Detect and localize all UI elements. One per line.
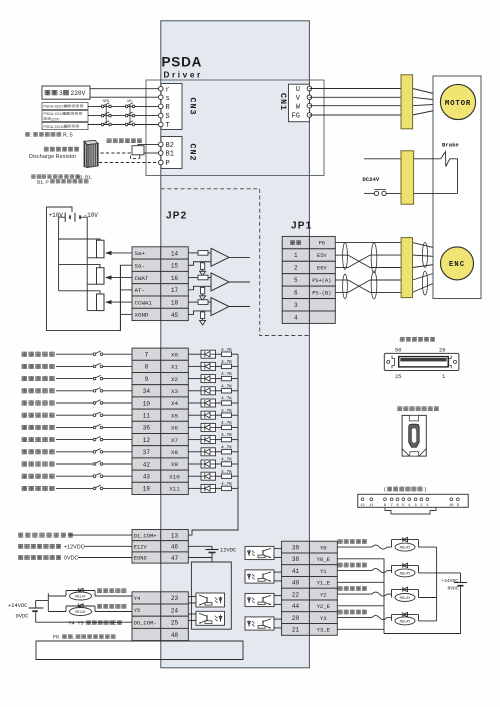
svg-text:E0V: E0V — [317, 266, 327, 272]
encoder circle ENC — [441, 247, 474, 280]
wire phase r — [90, 88, 159, 90]
svg-text:50: 50 — [395, 348, 401, 354]
svg-text:PSDA: PSDA — [162, 55, 203, 70]
wire op-amp U3 plus input — [188, 301, 198, 303]
label digital input X4 — [22, 401, 54, 405]
wire battery minus to E bus — [384, 586, 461, 634]
svg-text:JP1: JP1 — [291, 221, 312, 232]
relay output Y0 right — [391, 540, 393, 548]
wire output Y0 with break — [337, 546, 372, 548]
optocoupler output Y3 — [245, 617, 274, 630]
wire B1 to internal resistor — [144, 152, 159, 154]
svg-text:8: 8 — [145, 364, 149, 371]
optocoupler input X9 — [188, 463, 201, 465]
svg-text:X4: X4 — [171, 400, 178, 407]
label digital output Y2 — [338, 586, 367, 590]
svg-text:+10V: +10V — [49, 212, 64, 219]
svg-text:E5V: E5V — [317, 253, 327, 259]
brake switch zigzag — [441, 152, 458, 194]
input common bus wire — [188, 354, 238, 535]
wire 4.7K X8 to bus — [232, 451, 239, 453]
svg-text:XGND: XGND — [135, 312, 149, 319]
pin r of CN3 — [159, 86, 164, 91]
bias resistor op-amp U3 — [201, 312, 205, 319]
svg-text:Sa+: Sa+ — [135, 250, 146, 257]
wire input X2 to terminal — [103, 378, 132, 380]
switch digital input X1 — [56, 365, 93, 367]
white connector area box — [146, 80, 324, 176]
svg-text:MC: MC — [127, 99, 133, 103]
wire B2 to internal resistor — [138, 144, 159, 145]
svg-text:18: 18 — [171, 299, 179, 306]
svg-text:4: 4 — [294, 314, 298, 321]
switch digital input X6 — [56, 426, 93, 428]
svg-text:DC24V: DC24V — [362, 176, 379, 183]
svg-text:43: 43 — [143, 474, 151, 481]
resistor 4.7K input X0 — [216, 353, 222, 355]
svg-text:RELAY: RELAY — [400, 571, 412, 575]
label digital input X5 — [22, 413, 54, 417]
svg-text:4.7K: 4.7K — [221, 359, 232, 365]
svg-text:0VDC: 0VDC — [448, 585, 459, 591]
svg-text:40: 40 — [292, 580, 300, 587]
wire op-amp U2 plus input — [188, 277, 198, 279]
svg-text:4.7K: 4.7K — [221, 457, 232, 463]
svg-text:45: 45 — [171, 312, 179, 319]
terminal table JP2 — [132, 247, 188, 321]
wire input X7 to terminal — [103, 439, 132, 441]
label digital output Y0 — [338, 539, 367, 543]
wire op-amp U1 output — [229, 256, 250, 258]
label waike shell row — [290, 241, 300, 245]
label digital output Y1 — [338, 563, 367, 567]
wire twisted pair E5V/E0V — [335, 254, 348, 256]
svg-text:47: 47 — [171, 555, 179, 562]
input resistor op-amp U2 — [198, 275, 208, 280]
svg-text:3: 3 — [59, 90, 63, 97]
resistor 4.7K input X8 — [216, 451, 222, 453]
output relay supply bus — [436, 547, 438, 621]
svg-text:B2, B1,: B2, B1, — [77, 175, 93, 181]
svg-text:RELAY: RELAY — [75, 610, 87, 614]
wire potentiometer 3 bottom — [87, 310, 96, 312]
relay output Y5 — [48, 611, 66, 613]
svg-text:34: 34 — [143, 388, 151, 395]
svg-text:17: 17 — [171, 287, 179, 294]
input resistor op-amp U1 — [198, 251, 208, 256]
svg-text:10: 10 — [449, 504, 454, 508]
svg-text:220V: 220V — [51, 117, 60, 121]
label digital input X10 — [22, 474, 54, 478]
svg-text:23: 23 — [171, 595, 179, 602]
relay output Y1 right — [391, 565, 393, 573]
svg-text:6: 6 — [294, 290, 298, 297]
optocoupler output Y0 — [245, 546, 274, 559]
svg-text:AT-: AT- — [135, 287, 145, 294]
svg-text:RELAY: RELAY — [75, 594, 87, 598]
switch digital input X4 — [56, 402, 93, 404]
svg-text:Y3_E: Y3_E — [317, 627, 331, 634]
svg-text:T: T — [166, 122, 170, 130]
wiper arrow potentiometer 2 — [110, 277, 132, 279]
potentiometer R3 — [97, 294, 105, 311]
optocoupler output Y2 — [245, 593, 274, 606]
label driver internal supply +12VDC — [18, 544, 60, 548]
pin R of CN3 — [159, 104, 164, 109]
potentiometer R2 — [97, 268, 105, 285]
optocoupler output Y1 — [245, 570, 274, 583]
wire to potentiometer 1 top — [59, 239, 100, 240]
svg-text:5: 5 — [294, 277, 298, 284]
wire battery plus to relay rail — [36, 601, 49, 608]
svg-text:Driver: Driver — [164, 71, 203, 80]
relay output Y2 right — [391, 589, 393, 597]
optocoupler input X5 — [188, 414, 201, 416]
wire U to motor — [309, 88, 412, 90]
svg-text:X7: X7 — [171, 437, 178, 444]
svg-text:4.7K: 4.7K — [221, 420, 232, 426]
optocoupler input X10 — [188, 475, 201, 477]
wire phase R — [88, 105, 159, 107]
wire input X10 to terminal — [103, 475, 132, 477]
optocoupler output Y4 — [188, 596, 196, 598]
svg-text:42: 42 — [143, 461, 151, 468]
wire JP1 FG to encoder connector — [335, 242, 401, 244]
op-amp U1 — [211, 248, 229, 266]
capacitor 12VDC — [188, 545, 212, 547]
wiper arrow potentiometer 3 — [110, 301, 132, 303]
encoder plug center key — [409, 424, 420, 447]
svg-text:Y2_E: Y2_E — [317, 603, 331, 610]
svg-text:12: 12 — [360, 504, 365, 508]
wire input X0 to terminal — [103, 353, 132, 355]
svg-text:Y4: Y4 — [134, 596, 140, 602]
svg-text:7: 7 — [145, 352, 149, 359]
wire phase s — [90, 96, 159, 98]
motor circle MOTOR — [440, 84, 475, 119]
svg-text::: : — [31, 132, 32, 138]
wire potentiometer 1 bottom — [87, 257, 96, 259]
wiper arrow potentiometer 1 — [110, 252, 132, 254]
twist lens marks column 3 — [422, 243, 427, 268]
wire input X1 to terminal — [103, 365, 132, 367]
svg-text:Y0: Y0 — [320, 544, 327, 551]
wire 4.7K X2 to bus — [232, 378, 239, 380]
svg-text:9: 9 — [145, 376, 149, 383]
svg-text:-10V: -10V — [84, 212, 99, 219]
switch digital input X3 — [56, 390, 93, 392]
svg-text:(: ( — [384, 487, 386, 493]
label digital input X7 — [22, 437, 54, 441]
dashed wire external resistor to B1 — [101, 153, 140, 158]
svg-text:RELAY: RELAY — [400, 619, 412, 623]
wire analog ground bus stubs — [120, 264, 132, 266]
model note box 2 — [42, 110, 88, 121]
svg-text:4.7K: 4.7K — [221, 383, 232, 389]
label control cable plug — [400, 337, 435, 341]
svg-text:0VDC: 0VDC — [64, 556, 78, 562]
label external discharge resistor — [44, 147, 79, 151]
svg-text:+24VDC: +24VDC — [8, 603, 27, 609]
note single phase use R S — [25, 132, 29, 136]
svg-text:Y1_E: Y1_E — [317, 580, 331, 587]
resistor 4.7K input X11 — [216, 487, 222, 489]
svg-text:X0: X0 — [171, 351, 178, 358]
dashed section divider — [161, 189, 310, 336]
wire 4.7K X1 to bus — [232, 365, 239, 367]
wire output Y3 with break — [337, 617, 372, 619]
resistor 4.7K input X2 — [216, 378, 222, 380]
svg-text:4.7K: 4.7K — [221, 396, 232, 402]
svg-text:20: 20 — [292, 615, 300, 622]
svg-text:22: 22 — [292, 591, 300, 598]
svg-text:CWAT: CWAT — [135, 275, 149, 282]
svg-text:3: 3 — [294, 302, 298, 309]
PSDA driver main block — [161, 21, 310, 668]
relay output Y4 — [48, 595, 66, 597]
ground arrow op-amp U3 — [202, 318, 204, 320]
external discharge resistor (hatched) — [84, 140, 98, 167]
wire encoder cable to ENC — [413, 243, 451, 252]
switch digital input X11 — [56, 487, 93, 489]
switch digital input X0 — [56, 353, 93, 355]
svg-text:ENC: ENC — [449, 261, 465, 269]
optocoupler output Y5 — [188, 613, 196, 615]
svg-text:X10: X10 — [169, 473, 180, 480]
wire battery minus to DO_COM- — [36, 611, 132, 622]
svg-text:CCWA1: CCWA1 — [135, 299, 153, 306]
encoder connector (yellow) — [401, 238, 412, 298]
svg-text:Y2: Y2 — [320, 591, 327, 598]
optocoupler input X3 — [188, 390, 201, 392]
wire V to motor — [309, 96, 412, 98]
svg-text:39: 39 — [292, 544, 300, 551]
wire input X5 to terminal — [103, 414, 132, 416]
wire output Y2 with break — [337, 593, 372, 595]
wire 4.7K X6 to bus — [232, 426, 239, 428]
wire twisted pair PS+/PS- — [335, 279, 348, 281]
optocoupler input X6 — [188, 426, 201, 428]
op-amp U2 — [211, 273, 229, 291]
svg-text:DO_COM-: DO_COM- — [134, 620, 157, 626]
bias resistor op-amp U1 — [201, 263, 205, 270]
svg-text:1: 1 — [442, 374, 445, 380]
svg-text:EGND: EGND — [134, 556, 147, 562]
connector CN2 box — [161, 137, 182, 169]
wire W to motor — [309, 105, 412, 107]
svg-text:E12V: E12V — [134, 545, 148, 551]
wire op-amp U3 output — [229, 306, 250, 308]
motor power connector (yellow) — [401, 75, 413, 129]
optocoupler input X4 — [188, 402, 201, 404]
wire 4.7K X4 to bus — [232, 402, 239, 404]
svg-text:11: 11 — [143, 413, 151, 420]
svg-text:Discharge Resistor: Discharge Resistor — [29, 154, 76, 160]
ground arrow op-amp U1 — [202, 269, 204, 271]
svg-text:14: 14 — [171, 250, 179, 257]
svg-text:220V: 220V — [71, 90, 86, 97]
label digital output Y4 — [97, 589, 126, 593]
pin P of CN2 — [159, 160, 164, 165]
svg-text:15: 15 — [171, 263, 179, 270]
svg-text:X11: X11 — [169, 486, 180, 493]
svg-text:4.7K: 4.7K — [221, 481, 232, 487]
svg-text:MOTOR: MOTOR — [445, 100, 471, 108]
connector CN1 box — [289, 84, 310, 122]
svg-text:Y5: Y5 — [134, 608, 140, 614]
pin B2 of CN2 — [159, 142, 164, 147]
wire battery right rail — [80, 217, 87, 310]
svg-text:B2: B2 — [166, 142, 174, 150]
label digital output Y5 — [97, 604, 126, 608]
svg-text:19: 19 — [143, 486, 151, 493]
svg-text:Sa-: Sa- — [135, 262, 145, 269]
wire analog reference frame — [47, 207, 121, 331]
optocoupler input X8 — [188, 451, 201, 453]
svg-text:FG: FG — [319, 241, 325, 247]
svg-text:CN2: CN2 — [188, 143, 198, 161]
svg-text:X8: X8 — [171, 449, 178, 456]
label digital input X11 — [22, 486, 54, 490]
control plug connector body — [384, 353, 459, 370]
encoder plug connector body — [402, 415, 426, 456]
network connector notch — [385, 507, 436, 514]
optocoupler input X1 — [188, 365, 201, 367]
label digital input X8 — [22, 450, 54, 454]
svg-text:B1, P: B1, P — [37, 179, 49, 185]
svg-text:CN3: CN3 — [188, 97, 198, 115]
svg-text:CN1: CN1 — [278, 93, 288, 111]
resistor 4.7K input X9 — [216, 463, 222, 465]
brake connector (yellow) — [401, 151, 414, 204]
label internal discharge resistor — [107, 139, 142, 143]
motor assembly box — [433, 76, 481, 299]
pin T of CN3 — [159, 122, 164, 127]
switch digital input X10 — [56, 475, 93, 477]
label digital input X9 — [22, 462, 54, 466]
svg-text:r: r — [166, 86, 170, 94]
wire FG to motor — [309, 114, 412, 116]
wire op-amp U2 output — [229, 281, 250, 283]
terminal table JP1 — [282, 236, 335, 323]
internal discharge resistor — [132, 146, 144, 155]
svg-text:25: 25 — [171, 620, 179, 627]
wire 4.7K X10 to bus — [232, 475, 239, 477]
svg-text:36: 36 — [143, 425, 151, 432]
wire input X11 to terminal — [103, 487, 132, 489]
label input common supply positive — [18, 533, 72, 537]
svg-text:+12VDC: +12VDC — [64, 545, 85, 551]
svg-text:U: U — [296, 86, 300, 94]
resistor 4.7K input X10 — [216, 475, 222, 477]
pin S of CN3 — [159, 113, 164, 118]
svg-text:Brake: Brake — [442, 142, 459, 149]
svg-text:PS+(A): PS+(A) — [312, 278, 331, 284]
wire op-amp U3 minus input — [188, 311, 211, 315]
svg-text:24: 24 — [171, 607, 179, 614]
connector CN3 box — [161, 84, 182, 130]
wire input X9 to terminal — [103, 463, 132, 465]
reference battery +10V/-10V — [65, 213, 80, 222]
svg-text:X3: X3 — [171, 388, 178, 395]
wire input X4 to terminal — [103, 402, 132, 404]
wire phase S — [88, 115, 159, 117]
wire 4.7K X5 to bus — [232, 414, 239, 416]
svg-text:X2: X2 — [171, 376, 178, 383]
input resistor op-amp U3 — [198, 300, 208, 305]
optocoupler input X11 — [188, 487, 201, 489]
model note box 1 — [42, 102, 88, 109]
dashed wire external resistor to P — [99, 162, 156, 164]
svg-text:13: 13 — [171, 533, 179, 540]
label driver internal supply 0VDC — [18, 555, 60, 559]
svg-text:X1: X1 — [171, 364, 178, 371]
svg-text:10: 10 — [143, 400, 151, 407]
wire 4.7K X7 to bus — [232, 439, 239, 441]
svg-text:4.7K: 4.7K — [221, 432, 232, 438]
svg-text:): ) — [425, 487, 427, 493]
optocoupler input X7 — [188, 439, 201, 441]
wire input X3 to terminal — [103, 390, 132, 392]
svg-text:PS-(B): PS-(B) — [312, 290, 331, 296]
model note box 3 — [42, 122, 88, 129]
svg-text:FG: FG — [53, 635, 59, 641]
wire 4.7K X0 to bus — [232, 353, 239, 355]
terminal table Y4 Y5 — [132, 592, 188, 641]
wire brake bottom with plug contacts — [364, 192, 374, 194]
terminal table power rows — [132, 530, 188, 564]
network connector body — [358, 494, 468, 507]
svg-text:16: 16 — [171, 275, 179, 282]
svg-text:4.7K: 4.7K — [221, 444, 232, 450]
encoder plug bottom details — [402, 449, 409, 456]
resistor 4.7K input X5 — [216, 414, 222, 416]
terminal table digital inputs — [132, 348, 188, 494]
svg-text:21: 21 — [292, 627, 300, 634]
op-amp U3 — [211, 298, 229, 316]
svg-text:4.7K: 4.7K — [221, 469, 232, 475]
resistor 4.7K input X7 — [216, 439, 222, 441]
svg-text:JP2: JP2 — [166, 211, 187, 222]
wire brake top — [364, 158, 441, 160]
wire op-amp U1 plus input — [188, 252, 198, 254]
svg-text:41: 41 — [292, 568, 300, 575]
wire to potentiometer 3 top — [59, 291, 100, 294]
network connector pins — [360, 498, 459, 508]
relay output Y3 right — [391, 615, 393, 621]
wire 4.7K X3 to bus — [232, 390, 239, 392]
svg-text:Y4 Y5: Y4 Y5 — [69, 621, 84, 627]
wire phase T — [88, 124, 159, 126]
note external resistor connection line1 — [31, 175, 41, 179]
svg-text:4.7K: 4.7K — [221, 347, 232, 353]
svg-text:RELAY: RELAY — [400, 546, 412, 550]
switch digital input X2 — [56, 378, 93, 380]
switch digital input X7 — [56, 439, 93, 441]
svg-text:12VDC: 12VDC — [220, 548, 236, 554]
svg-text:44: 44 — [292, 603, 300, 610]
plug contact circles DC24V — [374, 191, 378, 195]
resistor 4.7K input X4 — [216, 402, 222, 404]
resistor 4.7K input X6 — [216, 426, 222, 428]
svg-text:,: , — [73, 635, 74, 641]
svg-text:Y1: Y1 — [320, 568, 327, 575]
svg-text:FG: FG — [292, 113, 300, 121]
svg-text:37: 37 — [143, 449, 151, 456]
svg-text:s: s — [166, 95, 170, 103]
svg-text:4.7K: 4.7K — [221, 408, 232, 414]
pin s of CN3 — [159, 95, 164, 100]
